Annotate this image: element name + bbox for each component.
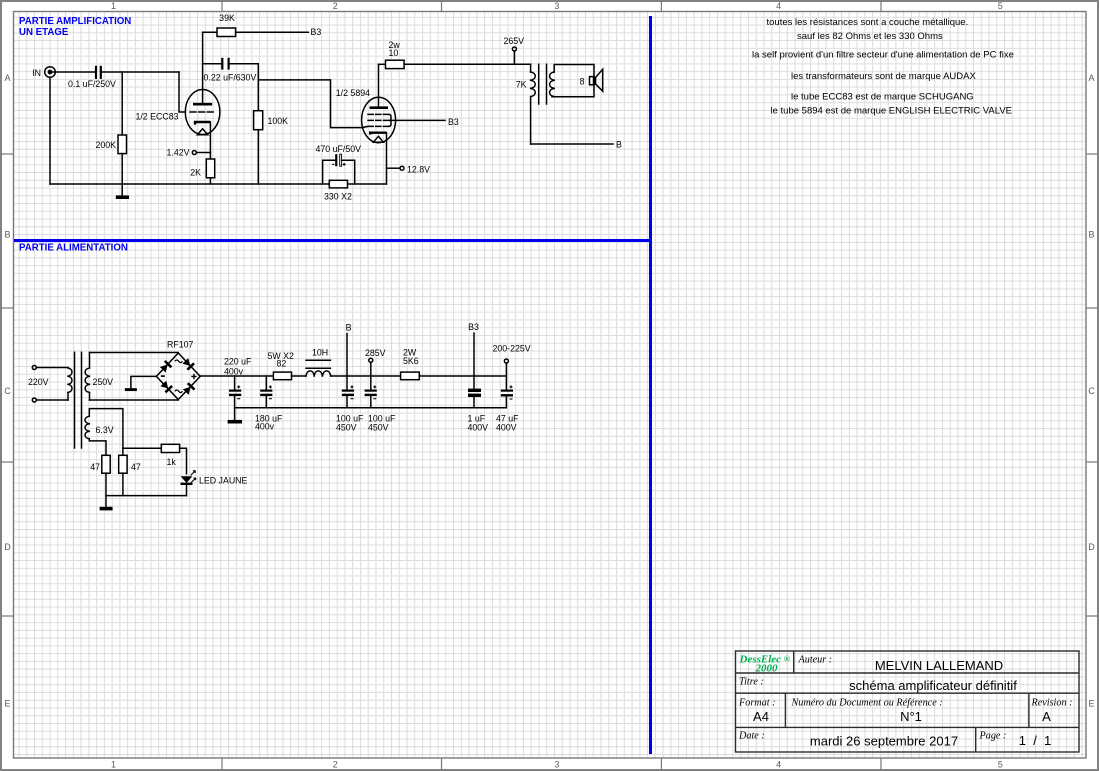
- wire grid riser to V1: [179, 72, 185, 112]
- svg-text:MELVIN LALLEMAND: MELVIN LALLEMAND: [875, 658, 1003, 673]
- svg-text:toutes les résistances sont a: toutes les résistances sont a couche mét…: [767, 17, 969, 28]
- wire R9 to ground: [105, 473, 107, 507]
- svg-text:400v: 400v: [224, 367, 244, 377]
- svg-text:B: B: [4, 229, 10, 239]
- test point 285V: [365, 348, 386, 390]
- svg-text:5K6: 5K6: [403, 356, 419, 366]
- svg-text:2: 2: [333, 1, 338, 11]
- svg-text:Format :: Format :: [738, 698, 776, 709]
- svg-text:265V: 265V: [504, 36, 525, 46]
- wire amplifier ground rail: [50, 183, 387, 185]
- svg-text:E: E: [1088, 699, 1094, 709]
- wire bridge minus to ground: [131, 376, 157, 388]
- svg-text:1k: 1k: [167, 457, 177, 467]
- svg-text:Auteur :: Auteur :: [798, 655, 833, 666]
- svg-text:Titre :: Titre :: [739, 677, 764, 688]
- svg-text:1.42V: 1.42V: [167, 148, 190, 158]
- svg-text:47: 47: [90, 462, 100, 472]
- ground symbol filter: [228, 420, 242, 424]
- wire bridge plus to filter rail: [200, 375, 273, 377]
- resistor R10 47: [119, 455, 141, 473]
- node B3 supply: [468, 322, 479, 389]
- resistor R7 5W X2 82: [268, 351, 295, 380]
- tube V2 1/2 5894 beam tetrode: [336, 64, 396, 184]
- svg-text:100K: 100K: [268, 116, 289, 126]
- resistor R6 330 X2: [324, 180, 352, 201]
- capacitor C3 470uF/50V: [316, 144, 362, 184]
- wire R3 to B3: [236, 31, 309, 33]
- ground symbol bridge: [125, 388, 137, 391]
- svg-text:47: 47: [131, 462, 141, 472]
- capacitor C8 1uF/400V: [468, 390, 489, 432]
- wire R5 to transformer primary: [404, 63, 530, 65]
- tube V1 1/2 ECC83 triode: [135, 32, 219, 159]
- capacitor C7 100uF/450V: [365, 385, 396, 432]
- capacitor C4 220uF/400v: [224, 357, 252, 421]
- resistor R2 2K: [190, 159, 214, 178]
- svg-text:IN: IN: [32, 68, 41, 78]
- wire junction down to R1: [121, 72, 123, 135]
- svg-text:12.8V: 12.8V: [407, 165, 430, 175]
- transformer T2 secondary 6.3V winding: [85, 416, 114, 439]
- svg-text:2: 2: [333, 760, 338, 770]
- svg-text:C: C: [1088, 386, 1095, 396]
- svg-text:7K: 7K: [516, 80, 527, 90]
- resistor R4 100K: [254, 111, 289, 130]
- svg-text:330 X2: 330 X2: [324, 192, 352, 202]
- svg-text:400v: 400v: [255, 422, 275, 432]
- svg-text:le tube ECC83 est de marque SC: le tube ECC83 est de marque SCHUGANG: [791, 92, 974, 103]
- svg-text:UN ETAGE: UN ETAGE: [19, 27, 69, 38]
- wire screen grid to B3: [389, 119, 445, 121]
- resistor R5 2w 10: [379, 40, 405, 69]
- svg-text:10: 10: [389, 48, 399, 58]
- svg-text:N°1: N°1: [900, 709, 922, 724]
- svg-text:RF107: RF107: [167, 340, 194, 350]
- svg-text:E: E: [4, 699, 10, 709]
- svg-text:3: 3: [554, 1, 559, 11]
- svg-text:1: 1: [111, 1, 116, 11]
- wire 250V top to bridge: [90, 352, 179, 354]
- svg-text:400V: 400V: [468, 423, 489, 433]
- svg-text:D: D: [4, 542, 11, 552]
- svg-text:le tube 5894 est de marque ENG: le tube 5894 est de marque ENGLISH ELECT…: [771, 106, 1013, 117]
- wire R1 to ground rail: [121, 154, 123, 184]
- svg-text:B3: B3: [448, 117, 459, 127]
- resistor R1 200K: [95, 135, 126, 154]
- svg-text:1 / 1: 1 / 1: [1019, 733, 1052, 748]
- resistor R9 47: [90, 455, 110, 473]
- svg-text:A4: A4: [753, 709, 769, 724]
- svg-text:A: A: [1042, 709, 1051, 724]
- transformer T1 secondary winding: [550, 65, 594, 97]
- svg-text:Date :: Date :: [738, 731, 765, 742]
- svg-text:3: 3: [554, 760, 559, 770]
- svg-text:0.22 uF/630V: 0.22 uF/630V: [204, 73, 257, 83]
- svg-text:220 uF: 220 uF: [224, 357, 252, 367]
- svg-text:A: A: [1088, 73, 1094, 83]
- svg-text:39K: 39K: [219, 13, 235, 23]
- logo DessElec 2000: [739, 654, 791, 675]
- wire 220V top lead: [36, 367, 68, 369]
- svg-text:PARTIE AMPLIFICATION: PARTIE AMPLIFICATION: [19, 16, 131, 27]
- svg-text:Page :: Page :: [979, 731, 1007, 742]
- ground symbol 6.3V: [100, 507, 113, 511]
- svg-text:schéma amplificateur définitif: schéma amplificateur définitif: [849, 678, 1017, 693]
- wire LED bottom rail: [106, 495, 187, 497]
- svg-text:C: C: [4, 386, 11, 396]
- bridge rectifier RF107: [156, 340, 200, 400]
- svg-text:470 uF/50V: 470 uF/50V: [316, 144, 362, 154]
- svg-text:mardi 26 septembre 2017: mardi 26 septembre 2017: [810, 734, 958, 749]
- transformer T2 primary winding: [68, 368, 72, 400]
- transformer T1 output 7K primary: [516, 64, 536, 144]
- ground symbol amplifier: [116, 184, 129, 197]
- svg-text:450V: 450V: [336, 423, 357, 433]
- wire IN down to ground rail: [49, 77, 51, 184]
- svg-text:Numéro du Document ou Référenc: Numéro du Document ou Référence :: [791, 698, 943, 709]
- terminal 220V input top: [32, 366, 36, 370]
- svg-text:0.1 uF/250V: 0.1 uF/250V: [68, 79, 116, 89]
- test point 12.8V: [387, 165, 431, 175]
- resistor R8 2W 5K6: [401, 348, 420, 380]
- svg-text:250V: 250V: [93, 377, 114, 387]
- wire C2 to junction: [230, 64, 259, 111]
- capacitor C2 0.22uF/630V: [204, 58, 257, 83]
- resistor R11 1k: [161, 444, 179, 467]
- svg-text:6.3V: 6.3V: [96, 425, 114, 435]
- svg-text:200-225V: 200-225V: [493, 344, 531, 354]
- svg-text:1/2 ECC83: 1/2 ECC83: [135, 112, 178, 122]
- section divider vertical blue line: [649, 16, 652, 754]
- wire 250V bottom to bridge: [90, 399, 179, 401]
- svg-text:B: B: [1088, 229, 1094, 239]
- wire R11 to LED: [180, 448, 187, 474]
- node B supply: [346, 323, 352, 390]
- svg-text:la self provient d'un filtre s: la self provient d'un filtre secteur d'u…: [752, 50, 1014, 61]
- svg-text:B: B: [346, 323, 352, 333]
- test point 265V: [504, 36, 525, 64]
- svg-text:10H: 10H: [312, 348, 328, 358]
- wire R10 to bottom rail: [122, 473, 124, 495]
- section divider horizontal blue line: [14, 239, 652, 242]
- svg-text:4: 4: [776, 1, 781, 11]
- capacitor C5 180uF/400v: [255, 376, 283, 432]
- svg-text:8: 8: [580, 77, 585, 87]
- wire 6.3V top lead: [89, 409, 123, 456]
- svg-text:4: 4: [776, 760, 781, 770]
- capacitor C1 0.1uF/250V: [68, 66, 116, 89]
- svg-text:5: 5: [998, 1, 1003, 11]
- svg-text:400V: 400V: [496, 423, 517, 433]
- capacitor C9 47uF/400V: [496, 385, 519, 432]
- wire R8 to output rail: [419, 375, 506, 377]
- svg-text:Revision :: Revision :: [1031, 698, 1073, 709]
- wire R2 to ground rail: [209, 178, 211, 184]
- svg-text:PARTIE ALIMENTATION: PARTIE ALIMENTATION: [19, 243, 128, 254]
- inductor L1 10H: [306, 348, 331, 377]
- wire coupling to V2 grid: [258, 80, 368, 128]
- wire 220V bottom lead: [36, 399, 68, 401]
- svg-text:A: A: [4, 73, 10, 83]
- connector IN input jack: [32, 67, 55, 78]
- svg-text:B3: B3: [468, 322, 479, 332]
- svg-text:les transformateurs sont de ma: les transformateurs sont de marque AUDAX: [791, 71, 976, 82]
- svg-text:1/2 5894: 1/2 5894: [336, 88, 370, 98]
- terminal 220V input bottom: [32, 398, 36, 402]
- svg-text:5: 5: [998, 760, 1003, 770]
- svg-text:2K: 2K: [190, 168, 201, 178]
- svg-text:285V: 285V: [365, 348, 386, 358]
- svg-text:82: 82: [277, 359, 287, 369]
- wire transformer primary bottom to B: [531, 143, 613, 145]
- capacitor C6 100uF/450V: [336, 385, 364, 432]
- svg-text:B: B: [616, 140, 622, 150]
- svg-text:sauf les 82 Ohms et les 330 Oh: sauf les 82 Ohms et les 330 Ohms: [797, 31, 943, 42]
- speaker 8 ohms: [580, 69, 603, 91]
- title block frame: [736, 651, 1080, 752]
- test point 1.42V: [167, 148, 211, 158]
- svg-text:D: D: [1088, 542, 1095, 552]
- wire C1 to grid corner: [102, 71, 179, 73]
- wire filter lower rail: [235, 407, 507, 409]
- transformer T2 core: [75, 352, 82, 448]
- wire anode to C2: [203, 63, 222, 65]
- LED D1 LED JAUNE: [181, 471, 248, 496]
- svg-text:2000: 2000: [755, 662, 779, 674]
- svg-text:220V: 220V: [28, 377, 49, 387]
- svg-text:450V: 450V: [368, 423, 389, 433]
- test point 200-225V: [493, 344, 531, 390]
- svg-text:LED JAUNE: LED JAUNE: [199, 476, 248, 486]
- wire R7 to inductor: [292, 375, 307, 377]
- svg-text:B3: B3: [311, 27, 322, 37]
- wire junction to R11: [123, 447, 162, 449]
- wire 6.3V bottom lead: [89, 439, 106, 456]
- resistor R3 39K: [203, 13, 236, 37]
- svg-text:200K: 200K: [95, 140, 116, 150]
- wire IN to C1: [52, 71, 95, 73]
- wire inductor to rail: [331, 375, 401, 377]
- transformer T1 core: [539, 64, 547, 104]
- wire R4 to ground rail: [257, 130, 259, 184]
- transformer T2 secondary 250V winding: [85, 353, 113, 401]
- svg-text:1: 1: [111, 760, 116, 770]
